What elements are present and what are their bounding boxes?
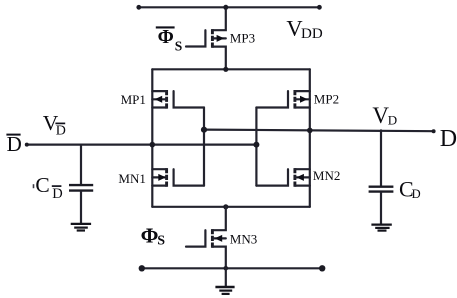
wire bottom line	[142, 267, 323, 269]
wire lower inner rail	[152, 206, 309, 208]
junction gate line / node Dbar	[253, 142, 259, 148]
wire cross-couple gate line MP2/MN2 to node Dbar	[255, 108, 257, 186]
junction MP3 source / upper rail	[223, 67, 228, 72]
svg-text:MN3: MN3	[230, 232, 257, 247]
svg-text:D: D	[56, 124, 66, 139]
svg-text:D: D	[52, 186, 62, 202]
svg-text:MN1: MN1	[118, 171, 145, 186]
junction gate line / node D	[201, 127, 207, 133]
ground (center, below MN3 source line)	[215, 268, 234, 294]
capacitor C_D	[369, 130, 394, 223]
svg-text:D: D	[440, 126, 457, 152]
junction top rail / MP3 drain	[223, 5, 228, 10]
svg-text:S: S	[157, 233, 165, 248]
svg-text:Φ: Φ	[158, 27, 174, 48]
svg-text:D: D	[412, 187, 421, 201]
transistor MP1	[152, 90, 204, 109]
wire VDD top rail	[138, 6, 319, 8]
ground (left, below C_Dbar)	[71, 224, 91, 231]
speck (scan artifact)	[33, 184, 35, 188]
svg-text:C: C	[35, 173, 49, 197]
wire node D line	[204, 130, 434, 132]
svg-text:MP3: MP3	[230, 30, 255, 45]
svg-text:Φ: Φ	[141, 223, 159, 247]
svg-text:DD: DD	[301, 26, 323, 42]
transistor MN2	[256, 168, 309, 187]
transistor MN1	[152, 168, 204, 187]
junction MN3 drain / lower rail	[223, 204, 228, 209]
terminal dot left	[139, 265, 145, 271]
svg-text:MP1: MP1	[121, 92, 146, 107]
transistor MN3	[186, 207, 226, 268]
transistor MP3	[186, 7, 226, 69]
capacitor C_Dbar	[69, 145, 93, 223]
transistor MP2	[256, 90, 309, 109]
terminal dot right	[319, 265, 325, 271]
wire left stack vertical	[151, 69, 153, 207]
svg-text:D: D	[388, 112, 397, 127]
wire upper inner rail	[152, 68, 309, 70]
svg-text:D: D	[7, 132, 22, 156]
wire node Dbar line	[26, 144, 256, 146]
wire cross-couple gate line MP1/MN1 to node D	[203, 108, 205, 186]
junction right stack / node D	[307, 128, 313, 134]
svg-text:MN2: MN2	[313, 168, 340, 183]
junction MN3 source / bottom line	[224, 266, 229, 271]
svg-text:S: S	[175, 38, 183, 53]
wire right stack vertical	[309, 69, 311, 207]
junction left stack / node Dbar	[150, 142, 156, 148]
ground (right, below C_D)	[371, 225, 391, 231]
svg-text:MP2: MP2	[314, 91, 339, 106]
